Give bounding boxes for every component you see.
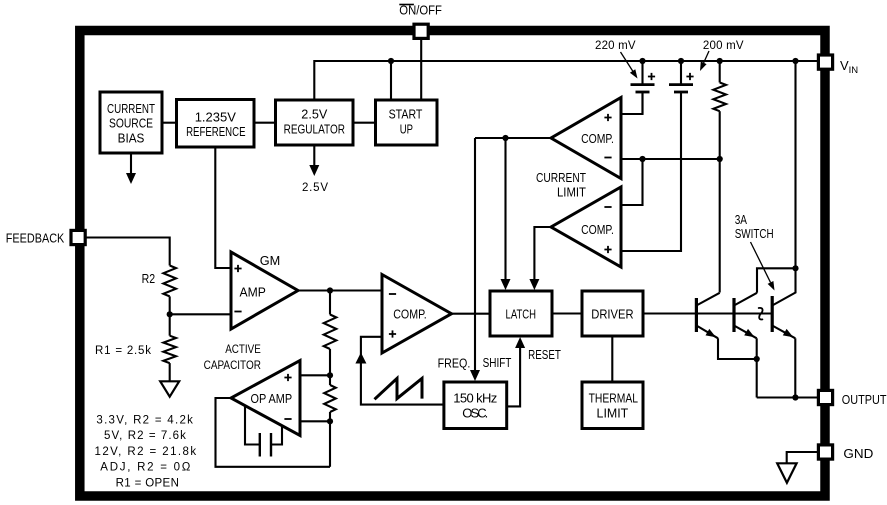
transistor Q1 base bar: [695, 298, 698, 332]
transistor Q2 collector: [734, 293, 757, 306]
transistor Q1 collector: [696, 293, 719, 306]
wire cap1 top lead: [641, 61, 643, 84]
op-amp GM AMP: [231, 252, 298, 329]
wire emitters to output: [756, 359, 758, 398]
svg-text:FREQ.: FREQ.: [438, 355, 471, 370]
svg-text:2.5V: 2.5V: [302, 182, 328, 194]
node feedback divider: [167, 311, 173, 317]
node rail-cap2 junction: [678, 58, 684, 64]
transistor Q3 base bar: [771, 296, 774, 332]
svg-text:R1 = OPEN: R1 = OPEN: [116, 478, 179, 490]
svg-text:CURRENT: CURRENT: [536, 170, 586, 185]
wire compA minus line: [621, 158, 720, 160]
wire reference-regulator: [254, 122, 276, 124]
capacitor active feedback: [245, 406, 282, 445]
wire opamp feedback loop: [216, 398, 331, 467]
wire START UP branch: [390, 61, 392, 100]
wire bias-reference: [162, 122, 177, 124]
svg-text:1.235V: 1.235V: [195, 109, 237, 124]
wire sense resistor bottom: [719, 111, 721, 159]
node rail-startup junction: [388, 58, 394, 64]
block START UP: [376, 100, 438, 145]
svg-text:200 mV: 200 mV: [703, 40, 744, 52]
wire minus node down: [329, 421, 331, 467]
transistor Q2 base bar: [732, 298, 735, 332]
block LATCH: [490, 291, 552, 336]
svg-text:3A: 3A: [735, 212, 748, 227]
arrow osc feedback up: [355, 353, 366, 364]
capacitor source 200mV: [669, 83, 693, 86]
arrow reset into latch: [515, 337, 525, 348]
svg-text:BIAS: BIAS: [118, 130, 145, 145]
svg-text:START: START: [389, 107, 423, 122]
wire comp output to latch: [452, 313, 491, 315]
wire gnd: [787, 452, 819, 463]
transistor Q1 emitter: [696, 326, 718, 339]
wire opamp- input: [300, 420, 330, 422]
svg-text:OSC.: OSC.: [462, 406, 488, 421]
wire latch set drop 1: [504, 138, 506, 281]
svg-text:2.5V: 2.5V: [301, 107, 327, 122]
arrow 3A switch pointer: [751, 242, 771, 282]
wire Q2 emitter down: [756, 338, 758, 359]
comparator COMP A: [551, 98, 621, 179]
svg-text:REFERENCE: REFERENCE: [186, 124, 246, 139]
wire junction to Rtop: [329, 291, 331, 315]
node collector junction: [792, 265, 798, 271]
svg-text:GM: GM: [260, 253, 281, 268]
node GM output junction: [327, 287, 333, 293]
svg-text:SHIFT: SHIFT: [483, 355, 512, 370]
svg-text:R2: R2: [142, 271, 156, 286]
arrow 220mV pointer: [621, 52, 634, 72]
svg-text:DRIVER: DRIVER: [591, 306, 633, 321]
node minus-line resistor junction: [717, 156, 723, 162]
svg-text:FEEDBACK: FEEDBACK: [6, 231, 65, 246]
wire V_IN rail: [314, 61, 819, 100]
wire compB plus input: [621, 92, 681, 251]
capacitor source 220mV: [631, 83, 655, 86]
svg-text:RESET: RESET: [528, 347, 561, 362]
wire driver-thermal: [611, 336, 613, 382]
wire compA plus input: [621, 92, 643, 114]
resistor current sense: [713, 83, 726, 112]
node output junction: [792, 394, 798, 400]
resistor R2: [163, 266, 176, 297]
svg-text:12V, R2 = 21.8k: 12V, R2 = 21.8k: [95, 446, 197, 458]
wire compA output: [475, 137, 551, 139]
sawtooth waveform: [375, 378, 423, 399]
resistor compensation bottom: [324, 385, 336, 412]
svg-text:REGULATOR: REGULATOR: [284, 121, 345, 136]
svg-text:AMP: AMP: [240, 285, 266, 300]
node compA output junction: [502, 135, 508, 141]
node rail-resistor junction: [717, 58, 723, 64]
wire latch-driver: [552, 312, 582, 314]
transistor Q3 collector: [772, 268, 795, 305]
svg-text:COMP.: COMP.: [581, 131, 614, 146]
svg-text:GND: GND: [843, 446, 873, 461]
wire comp+ from osc: [361, 337, 444, 405]
wire freq shift drop: [474, 138, 476, 371]
svg-text:ADJ, R2 = 0Ω: ADJ, R2 = 0Ω: [100, 462, 190, 474]
ground gnd pad: [777, 463, 796, 483]
svg-text:OP AMP: OP AMP: [251, 391, 293, 406]
svg-text:ACTIVE: ACTIVE: [225, 342, 261, 356]
arrow freq shift into osc: [470, 370, 480, 381]
ground feedback divider: [160, 381, 179, 396]
svg-text:SWITCH: SWITCH: [735, 226, 774, 241]
pad GND: [818, 445, 832, 459]
op-amp OP AMP: [231, 361, 300, 436]
wire compB minus input: [621, 159, 643, 205]
svg-text:CURRENT: CURRENT: [107, 101, 155, 116]
squiggle base wire hop: [759, 308, 763, 320]
node rail-cap1 junction: [639, 58, 645, 64]
wire driver to bases: [643, 312, 772, 314]
svg-text:220 mV: 220 mV: [595, 40, 636, 52]
wire GM output to COMP-: [298, 289, 382, 291]
wire cap1 bottom lead: [641, 92, 643, 114]
node opamp minus: [327, 418, 333, 424]
pad OUTPUT: [818, 390, 832, 404]
node minus-line cap junction: [639, 156, 645, 162]
pad ON/OFF: [414, 24, 428, 38]
wire reset: [507, 347, 520, 406]
wire divider to GM-: [170, 313, 231, 315]
wire ON/OFF to START UP: [420, 39, 422, 100]
wire chain to minus node: [329, 412, 331, 421]
block DRIVER: [582, 291, 643, 336]
svg-text:COMP.: COMP.: [581, 222, 614, 237]
wire sense to T1 collector: [719, 159, 721, 293]
svg-text:VIN: VIN: [840, 58, 858, 76]
wire feedback pad to R2: [86, 238, 170, 266]
wire opamp+ input: [300, 374, 330, 376]
transistor Q2 emitter: [734, 326, 757, 339]
block 2.5V REGULATOR: [276, 100, 354, 145]
block 1.235V REFERENCE: [177, 100, 255, 148]
svg-text:THERMAL: THERMAL: [589, 390, 638, 405]
wire Rtop to opamp+ node: [329, 349, 331, 375]
svg-text:LIMIT: LIMIT: [557, 185, 586, 200]
svg-text:3.3V, R2 = 4.2k: 3.3V, R2 = 4.2k: [96, 414, 193, 426]
svg-text:SOURCE: SOURCE: [109, 116, 153, 131]
pad FEEDBACK: [71, 230, 85, 244]
svg-text:LATCH: LATCH: [506, 306, 537, 321]
wire R1 to ground: [169, 363, 171, 381]
block CURRENT SOURCE BIAS: [100, 92, 162, 153]
arrow bias down: [130, 153, 132, 175]
wire sense resistor top lead: [719, 61, 721, 83]
pad VIN: [818, 55, 832, 69]
node rail-switch junction: [792, 58, 798, 64]
svg-text:150 kHz: 150 kHz: [453, 391, 497, 406]
wire Q1 emitter down: [718, 338, 757, 359]
svg-text:UP: UP: [400, 121, 413, 136]
resistor compensation top: [324, 315, 337, 350]
arrow 200mV pointer: [703, 51, 709, 65]
block 150kHz OSC: [444, 382, 507, 429]
arrow latch set drop 2: [529, 279, 539, 290]
wire R2 to node: [169, 296, 171, 314]
wire reference to GM+: [215, 147, 231, 268]
IC outer border: [80, 31, 825, 497]
wire cap2 top lead: [680, 61, 682, 84]
svg-text:COMP.: COMP.: [393, 306, 427, 321]
transistor Q3 emitter: [772, 326, 795, 339]
wire Q3 emitter down: [794, 338, 796, 397]
comparator COMP main: [382, 275, 452, 354]
wire compB output: [534, 227, 551, 281]
svg-text:R1 = 2.5k: R1 = 2.5k: [95, 345, 151, 357]
comparator COMP B: [551, 187, 621, 267]
resistor R1: [163, 336, 176, 363]
node emitter junction: [754, 356, 760, 362]
block THERMAL LIMIT: [582, 382, 643, 429]
wire output: [757, 396, 819, 398]
wire regulator-startup: [353, 122, 376, 124]
svg-text:LIMIT: LIMIT: [597, 405, 629, 420]
svg-text:OUTPUT: OUTPUT: [842, 392, 887, 407]
wire node to R1: [169, 314, 171, 335]
svg-text:5V, R2 = 7.6k: 5V, R2 = 7.6k: [104, 430, 186, 442]
node opamp plus: [327, 372, 333, 378]
svg-text:CAPACITOR: CAPACITOR: [204, 358, 262, 372]
arrow regulator 2.5V down: [313, 145, 315, 167]
wire collector rail drop: [794, 61, 796, 268]
wire between chain: [329, 375, 331, 385]
